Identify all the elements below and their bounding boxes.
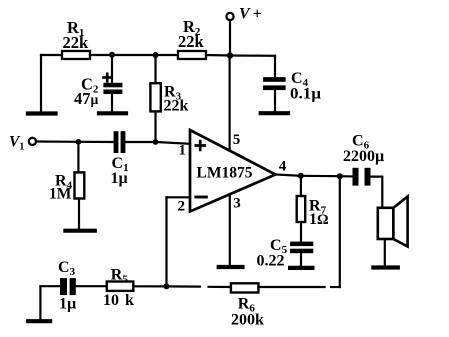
speaker LS1 body [378,208,394,239]
ground (below C4) [261,111,288,115]
capacitor C6 [353,168,371,186]
node: junction pin2/R5/R6 [164,283,170,289]
wire: R7 top lead [300,176,302,196]
wire: C2 bottom lead [111,94,113,112]
svg-text:1µ: 1µ [59,296,76,313]
svg-text:22k: 22k [164,98,189,115]
wire: node to op-amp pin 1 [156,142,191,144]
speaker LS1 cone [393,197,407,247]
svg-text:2: 2 [178,199,186,215]
wire: C5 bottom lead [300,253,302,266]
ground (below C5) [290,266,312,270]
wire: op-amp output to R7 junction [276,175,301,176]
svg-text:1: 1 [179,143,187,159]
svg-text:V1: V1 [9,134,24,153]
wire: R3 junction to R2 [156,54,179,56]
svg-text:10k: 10k [103,292,134,309]
ground (below R1 left) [28,111,56,115]
wire: C3 to ground corner [40,286,60,319]
wire: pin 2 horizontal lead [167,196,191,198]
node: junction R7 [298,173,304,179]
wire: junction to R5 [133,285,166,287]
capacitor C2 (electrolytic) [103,83,122,94]
wire: R7 junction to feedback junction [301,175,340,178]
resistor R2 [178,51,206,59]
svg-text:22k: 22k [178,32,205,51]
svg-text:0.1µ: 0.1µ [290,86,321,103]
resistor R1 [62,51,90,59]
wire: C2 junction to R3 junction [112,54,156,56]
wire: R3 top lead [154,55,156,83]
ground (pin 3) [219,265,243,269]
svg-text:5: 5 [233,132,241,148]
wire: pin 5 supply lead [229,56,231,151]
svg-text:3: 3 [233,196,241,212]
pin - (inverting mark) [196,196,207,199]
wire: R3 bottom lead to input node [154,111,156,142]
svg-text:22k: 22k [63,33,90,52]
wire: R2 to V+ junction [206,54,230,57]
ground (bottom left) [28,319,50,323]
wire: C4 bottom lead [274,90,276,111]
svg-text:1M: 1M [49,186,72,203]
capacitor C3 [60,278,76,295]
ground (below C2) [99,111,126,115]
node: junction R1/C2 [109,52,115,58]
wire: speaker ground lead [384,239,386,266]
terminal V+ [226,13,233,20]
wire: top rail left segment to R1 [41,54,62,56]
pin + (noninverting mark) [196,141,205,150]
node: junction C1/R3/pin1 [153,139,159,145]
svg-text:200k: 200k [231,312,264,329]
wire: pin 2 drop to feedback rail [165,197,167,286]
wire: feedback vertical from output [339,176,341,287]
node: junction R3 top [153,52,159,58]
wire: C4 branch drop [274,56,276,77]
svg-text:2200µ: 2200µ [343,148,384,165]
svg-text:R5: R5 [111,267,129,286]
polarity + (C2) [104,74,112,82]
capacitor C1 [114,131,126,153]
svg-text:1µ: 1µ [111,170,128,187]
svg-text:4: 4 [279,159,287,175]
wire: R4 top lead [77,142,79,173]
op-amp U1 LM1875 triangle [190,130,276,212]
svg-text:V+: V+ [239,6,262,23]
capacitor C4 [263,77,286,90]
svg-text:C3: C3 [58,259,76,278]
svg-text:1Ω: 1Ω [309,211,329,228]
svg-text:0.22: 0.22 [257,253,285,270]
node: junction R4 [76,139,82,145]
wire: R4 bottom lead [78,199,80,230]
node: junction V+ / pin5 / C4 [227,52,233,58]
wire: C6 to speaker corner [371,177,383,208]
wire: C2 top lead [111,55,113,83]
wire: R7 to C5 [300,222,302,242]
wire: R4 junction to C1 [78,141,113,143]
wire: R1 to C2 junction [90,54,112,56]
svg-text:47µ: 47µ [74,89,99,108]
wire: R1 left ground drop [40,55,42,113]
capacitor C5 [290,242,313,254]
resistor R5 [107,282,134,291]
ground (below R4) [65,229,94,233]
wire: junction to C4 corner [230,54,275,56]
wire: R6 to pin2 junction [209,286,231,288]
wire: R5 to C3 [76,285,107,287]
resistor R4 [75,172,85,198]
terminal Vi input [29,138,36,145]
resistor R7 [297,196,306,222]
wire: V+ drop to top rail [229,20,231,55]
svg-text:LM1875: LM1875 [197,165,253,182]
resistor R6 [231,283,259,292]
node: junction feedback/C6 [337,173,343,179]
wire: C1 to R3 node [125,141,155,143]
wire: Vi to R4 junction [36,140,78,143]
ground (below speaker) [373,265,397,269]
wire: junction to C6 [340,175,353,177]
wire: pin 3 ground lead [229,194,231,265]
resistor R3 [150,83,160,111]
wire: feedback bottom to R6 [331,286,340,288]
